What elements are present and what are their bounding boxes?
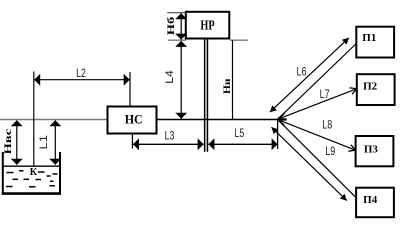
svg-text:П4: П4 bbox=[363, 194, 378, 206]
svg-text:L2: L2 bbox=[76, 68, 86, 80]
dimension Ни line bbox=[223, 40, 233, 119]
wire: pump axis line left segment bbox=[0, 119, 108, 121]
svg-text:L1: L1 bbox=[38, 135, 50, 150]
svg-text:НС: НС bbox=[125, 111, 143, 126]
dimension L1 bbox=[38, 120, 56, 165]
dimension L7 pipe to П2 bbox=[278, 89, 357, 119]
consumer box П1 bbox=[356, 27, 394, 58]
dimension L8 pipe to П3 bbox=[278, 120, 356, 151]
wire: discharge line НС to junction bbox=[156, 119, 278, 121]
water dashes in tank K bbox=[6, 171, 58, 187]
consumer box П2 bbox=[357, 74, 395, 105]
pump station box НС bbox=[108, 107, 157, 134]
pressure reservoir box НР bbox=[186, 12, 230, 39]
dimension L6 bbox=[270, 38, 349, 112]
svg-text:L4: L4 bbox=[164, 70, 176, 84]
svg-text:П3: П3 bbox=[364, 143, 379, 155]
dimension L3 bbox=[132, 130, 203, 148]
dimension L5 bbox=[208, 128, 277, 145]
node: reservoir bottom level tick left bbox=[168, 39, 186, 41]
consumer box П4 bbox=[356, 188, 394, 218]
svg-text:Ни: Ни bbox=[223, 78, 233, 94]
dimension L2 bbox=[34, 68, 130, 80]
wire: pipe to П4 bbox=[278, 120, 357, 198]
svg-text:L6: L6 bbox=[297, 66, 307, 78]
consumer box П3 bbox=[356, 136, 394, 166]
svg-text:НР: НР bbox=[200, 19, 215, 34]
svg-text:L5: L5 bbox=[235, 128, 245, 140]
dimension L4 bbox=[164, 41, 181, 119]
svg-text:L9: L9 bbox=[325, 146, 335, 158]
svg-text:П1: П1 bbox=[362, 32, 376, 44]
wire: L2 right extension to НС bbox=[129, 72, 131, 107]
svg-text:К: К bbox=[30, 167, 38, 178]
svg-text:Нб: Нб bbox=[166, 16, 177, 35]
node: water level tick top of Нб bbox=[167, 12, 186, 14]
svg-text:П2: П2 bbox=[363, 80, 378, 92]
node: reservoir bottom level tick right bbox=[230, 39, 248, 41]
svg-text:L3: L3 bbox=[165, 130, 175, 142]
wire: suction pipe into tank bbox=[33, 72, 35, 167]
dimension Нб bbox=[166, 13, 181, 39]
svg-text:Нвс: Нвс bbox=[4, 129, 14, 155]
wire: riser pipe right line bbox=[207, 39, 209, 152]
dimension Нвс bbox=[4, 120, 17, 165]
wire: riser pipe left line bbox=[204, 39, 206, 152]
dimension L9 bbox=[272, 127, 347, 200]
node: junction extension below bbox=[277, 120, 279, 150]
svg-text:L8: L8 bbox=[322, 120, 332, 132]
tank K (well reservoir) bbox=[2, 152, 61, 194]
wire: pipe to П1 bbox=[278, 44, 357, 120]
svg-text:L7: L7 bbox=[320, 89, 330, 101]
